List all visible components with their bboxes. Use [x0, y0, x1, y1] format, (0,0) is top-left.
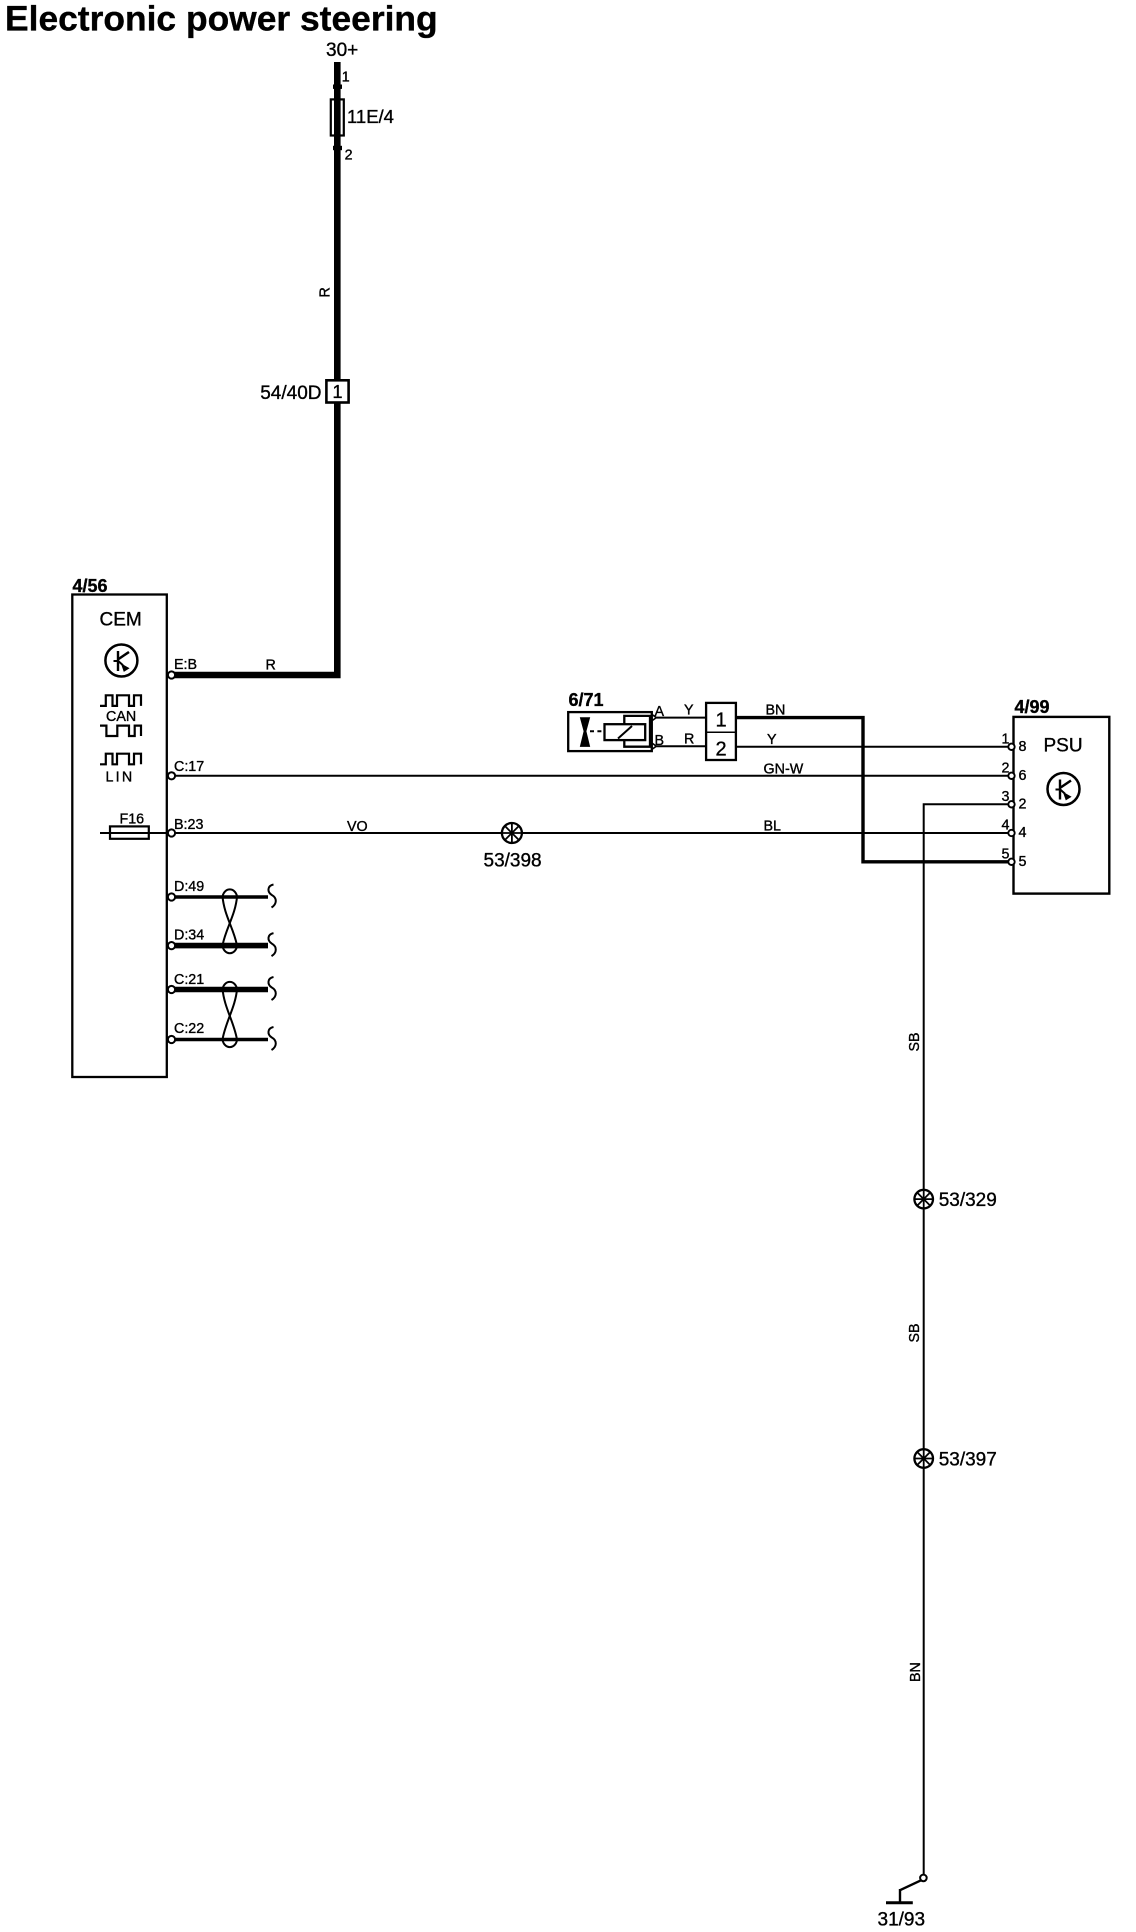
- svg-text:BN: BN: [766, 703, 786, 719]
- svg-text:2: 2: [1002, 761, 1010, 777]
- CEM control-unit symbol (K in circle): [105, 645, 137, 677]
- svg-text:Y: Y: [767, 732, 777, 748]
- PSU pin 6: [1008, 773, 1014, 779]
- wire from CEM C:21 (twisted pair upper): [172, 987, 269, 993]
- PSU pin 5: [1008, 859, 1014, 865]
- svg-text:5: 5: [1019, 854, 1027, 870]
- svg-text:C:22: C:22: [174, 1021, 204, 1037]
- svg-text:2: 2: [715, 739, 726, 761]
- PSU pin 4: [1008, 830, 1014, 836]
- svg-text:1: 1: [715, 710, 726, 732]
- svg-text:SB: SB: [907, 1032, 923, 1051]
- PSU pin 2: [1008, 801, 1014, 807]
- svg-text:31/93: 31/93: [878, 1910, 926, 1931]
- LIN bus symbol (square wave): [100, 754, 141, 765]
- sensor 6/71 resistor element: [605, 724, 646, 740]
- svg-text:R: R: [684, 732, 694, 748]
- wire through fuse F16: [100, 832, 167, 834]
- wire from CEM D:34 (twisted pair lower): [172, 943, 269, 949]
- svg-text:R: R: [266, 658, 276, 674]
- svg-text:30+: 30+: [326, 40, 358, 61]
- wire R feed: vertical from 30+ down, corner, horizontal to CEM pin E:B: [174, 62, 337, 675]
- svg-text:2: 2: [1019, 797, 1027, 813]
- svg-text:C:21: C:21: [174, 972, 204, 988]
- fuse F16 body: [110, 826, 149, 838]
- wire break curl C:22: [268, 1027, 275, 1050]
- svg-text:4/99: 4/99: [1015, 697, 1050, 717]
- splice 53/329: [914, 1190, 933, 1209]
- svg-text:3: 3: [1002, 789, 1010, 805]
- wire BN from connector cell 1 to PSU pin 5: [736, 718, 1012, 862]
- CAN bus symbol (square waves): [100, 695, 141, 736]
- svg-text:BL: BL: [764, 819, 782, 835]
- sensor 6/71 body: [568, 712, 652, 751]
- svg-text:5: 5: [1002, 847, 1010, 863]
- splice 53/397: [914, 1449, 933, 1468]
- sensor pin A arrow: [652, 714, 657, 721]
- connector 54/40D body: [326, 380, 348, 402]
- svg-text:6/71: 6/71: [569, 690, 604, 710]
- svg-text:E:B: E:B: [174, 657, 197, 673]
- control module CEM body: [72, 595, 167, 1078]
- pin 1 of fuse 11E/4 (tick): [333, 85, 342, 89]
- wire from CEM D:49 (twisted pair upper): [172, 895, 269, 898]
- svg-text:53/398: 53/398: [484, 851, 542, 872]
- svg-text:Electronic power steering: Electronic power steering: [5, 0, 438, 39]
- svg-text:F16: F16: [120, 812, 145, 828]
- svg-text:R: R: [318, 287, 334, 297]
- sensor 6/71 connector shell: [624, 716, 650, 747]
- svg-text:GN-W: GN-W: [764, 762, 804, 778]
- fuse 11E/4 body: [331, 99, 344, 135]
- wire break curl D:49: [268, 885, 275, 908]
- svg-text:54/40D: 54/40D: [260, 383, 321, 404]
- CEM pin E:B: [168, 671, 175, 678]
- svg-text:1: 1: [342, 70, 350, 86]
- svg-text:C:17: C:17: [174, 759, 204, 775]
- svg-text:6: 6: [1019, 768, 1027, 784]
- ground 31/93: [886, 1875, 927, 1903]
- wire Y from connector cell 2 to PSU pin 8: [736, 746, 1012, 748]
- svg-text:CAN: CAN: [106, 709, 136, 725]
- svg-text:53/329: 53/329: [939, 1190, 997, 1211]
- svg-text:4: 4: [1019, 825, 1027, 841]
- CEM pin C:17: [168, 772, 175, 779]
- wire GN-W from CEM C:17 to PSU pin 6: [172, 775, 1012, 777]
- CEM pin C:21: [168, 986, 175, 993]
- svg-text:D:49: D:49: [174, 879, 204, 895]
- inline connector divider: [706, 731, 736, 733]
- svg-text:4/56: 4/56: [73, 576, 108, 596]
- svg-text:4: 4: [1002, 818, 1010, 834]
- PSU control-unit symbol (K in circle): [1048, 773, 1080, 805]
- sensor 6/71 transducer symbol (bowtie): [580, 717, 590, 747]
- svg-text:LIN: LIN: [106, 770, 135, 786]
- wire Y from 6/71 pin A to connector cell 1: [656, 717, 706, 719]
- svg-text:8: 8: [1019, 739, 1027, 755]
- svg-text:VO: VO: [347, 819, 368, 835]
- wire SB from PSU pin 2 down to ground: [924, 804, 1012, 1874]
- svg-text:11E/4: 11E/4: [347, 106, 394, 127]
- inline connector body (cells 1/2): [706, 703, 736, 760]
- sensor pin B arrow: [652, 743, 657, 750]
- svg-text:SB: SB: [907, 1323, 923, 1342]
- wire from CEM C:22 (twisted pair lower): [172, 1038, 269, 1041]
- CEM pin B:23: [168, 829, 175, 836]
- svg-text:2: 2: [345, 148, 353, 164]
- wire break curl D:34: [268, 933, 275, 956]
- PSU pin 8: [1008, 744, 1014, 750]
- wire R from 6/71 pin B to connector cell 2: [656, 745, 706, 747]
- CEM pin C:22: [168, 1036, 175, 1043]
- twisted-pair symbol C:21/C:22: [223, 982, 238, 1047]
- wire break curl C:21: [268, 977, 275, 1000]
- CEM pin D:34: [168, 942, 175, 949]
- sensor 6/71 resistor slash: [618, 726, 632, 739]
- power steering unit PSU body: [1014, 717, 1110, 894]
- svg-text:B:23: B:23: [174, 817, 203, 833]
- svg-text:CEM: CEM: [100, 610, 142, 631]
- splice 53/398: [502, 823, 522, 843]
- svg-text:1: 1: [332, 382, 342, 402]
- wire VO/BL from CEM B:23 to PSU pin 4: [172, 832, 1012, 834]
- CEM pin D:49: [168, 893, 175, 900]
- sensor 6/71 dashed link: [590, 730, 605, 732]
- svg-text:BN: BN: [908, 1662, 924, 1682]
- svg-text:PSU: PSU: [1044, 736, 1083, 757]
- svg-text:53/397: 53/397: [939, 1449, 997, 1470]
- svg-text:1: 1: [1002, 732, 1010, 748]
- twisted-pair symbol D:49/D:34: [223, 889, 238, 953]
- svg-text:Y: Y: [684, 703, 694, 719]
- svg-text:D:34: D:34: [174, 928, 204, 944]
- pin 2 of fuse 11E/4 (tick): [333, 146, 342, 150]
